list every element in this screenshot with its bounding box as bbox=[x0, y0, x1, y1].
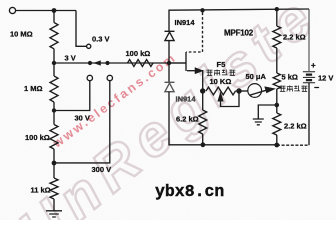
svg-text:IN914: IN914 bbox=[175, 18, 196, 27]
terminal 0.3V bbox=[87, 44, 91, 48]
ground left bbox=[46, 211, 62, 217]
battery B1 12V bbox=[303, 72, 315, 83]
potentiometer R7 5k bbox=[273, 73, 280, 105]
svg-text:6.2 kΩ: 6.2 kΩ bbox=[176, 115, 199, 124]
svg-text:ybx8.cn: ybx8.cn bbox=[155, 182, 224, 201]
node probe dot A bbox=[88, 61, 92, 65]
svg-text:2.2 kΩ: 2.2 kΩ bbox=[284, 122, 307, 131]
svg-text:11 kΩ: 11 kΩ bbox=[31, 186, 51, 195]
node 2.2k on rail bbox=[275, 7, 279, 11]
label kedushedin (scale set) CJK bbox=[207, 70, 236, 76]
pot F5 wiper bbox=[221, 93, 240, 107]
node 5k/2.2k junction bbox=[275, 103, 280, 108]
svg-text:−: − bbox=[314, 83, 319, 93]
svg-text:100 kΩ: 100 kΩ bbox=[126, 49, 151, 58]
meter arrow to 5k wiper bbox=[250, 90, 266, 95]
svg-text:IN914: IN914 bbox=[176, 95, 197, 104]
svg-text:3 V: 3 V bbox=[65, 54, 76, 63]
node 6.2k bottom bbox=[201, 142, 206, 147]
svg-text:30 V: 30 V bbox=[75, 114, 90, 123]
node 300V junction bbox=[52, 161, 57, 166]
top supply rail bbox=[169, 9, 309, 31]
resistor R5 11k bbox=[50, 163, 58, 211]
resistor R8 2.2k bottom bbox=[273, 105, 281, 145]
resistor R3 1M bbox=[50, 63, 58, 111]
node 3V bbox=[52, 61, 56, 65]
wire to ground right bbox=[258, 105, 277, 119]
wire pot to meter bbox=[239, 90, 248, 92]
wire 30V branch bbox=[54, 81, 90, 111]
wire diode string bbox=[168, 41, 170, 83]
wire to 0.3V test point bbox=[76, 11, 87, 47]
watermark: www.elecfans.com pink diagonal text bbox=[50, 50, 180, 151]
meter M1 50uA bbox=[248, 84, 262, 98]
resistor R2 100k horizontal bbox=[128, 60, 154, 67]
node 2.2k bottom bbox=[274, 143, 279, 148]
svg-text:F5: F5 bbox=[217, 60, 226, 69]
arrow on 3V wire bbox=[93, 60, 101, 65]
resistor R6 2.2k top bbox=[273, 9, 281, 73]
resistor R1 10M bbox=[50, 11, 58, 64]
node probe dot B bbox=[105, 61, 109, 65]
resistor R4 100k bbox=[50, 111, 58, 164]
node pot right bbox=[236, 88, 241, 93]
svg-text:50 μA: 50 μA bbox=[246, 72, 267, 81]
wire battery negative riser bbox=[308, 83, 310, 145]
terminal 300V bbox=[107, 75, 112, 80]
node top-left junction bbox=[52, 8, 57, 13]
wire diode string to bottom rail bbox=[169, 92, 277, 145]
wire battery positive riser bbox=[308, 9, 310, 71]
ground right bbox=[253, 119, 264, 125]
resistor R9 6.2k bbox=[199, 91, 207, 145]
svg-text:MPF102: MPF102 bbox=[224, 29, 254, 38]
svg-text:300 V: 300 V bbox=[92, 165, 112, 174]
svg-text:5 kΩ: 5 kΩ bbox=[282, 73, 298, 82]
svg-text:+: + bbox=[311, 61, 316, 70]
potentiometer F5 10K bbox=[206, 87, 239, 95]
node drain on rail bbox=[200, 8, 204, 12]
wire top-left horizontal bbox=[16, 10, 76, 12]
svg-text:1 MΩ: 1 MΩ bbox=[24, 84, 43, 93]
JFET gate arrow bbox=[187, 70, 196, 72]
svg-text:0.3 V: 0.3 V bbox=[92, 35, 110, 44]
terminal input top-left bbox=[9, 7, 15, 13]
wire 300V branch bbox=[54, 81, 110, 163]
svg-text:10 MΩ: 10 MΩ bbox=[10, 30, 33, 39]
node pot left bbox=[200, 88, 205, 93]
diode D2 IN914 bbox=[165, 82, 175, 91]
svg-text:10 KΩ: 10 KΩ bbox=[210, 77, 232, 86]
diode D1 IN914 bbox=[165, 31, 175, 40]
svg-text:100 kΩ: 100 kΩ bbox=[25, 133, 50, 142]
svg-text:2.2 kΩ: 2.2 kΩ bbox=[283, 33, 306, 42]
gate wire bbox=[169, 52, 186, 71]
bottom rail dashed right bbox=[277, 144, 309, 146]
terminal 30V bbox=[87, 75, 92, 80]
svg-text:12 V: 12 V bbox=[318, 74, 333, 83]
node 30V junction bbox=[52, 108, 56, 112]
wire 3V rail bbox=[54, 62, 186, 64]
JFET source wire bbox=[202, 70, 204, 91]
node gate/diode junction bbox=[167, 61, 171, 65]
label zero-adjust CJK bbox=[280, 86, 308, 92]
JFET Q1 drain dashed bbox=[186, 13, 203, 53]
